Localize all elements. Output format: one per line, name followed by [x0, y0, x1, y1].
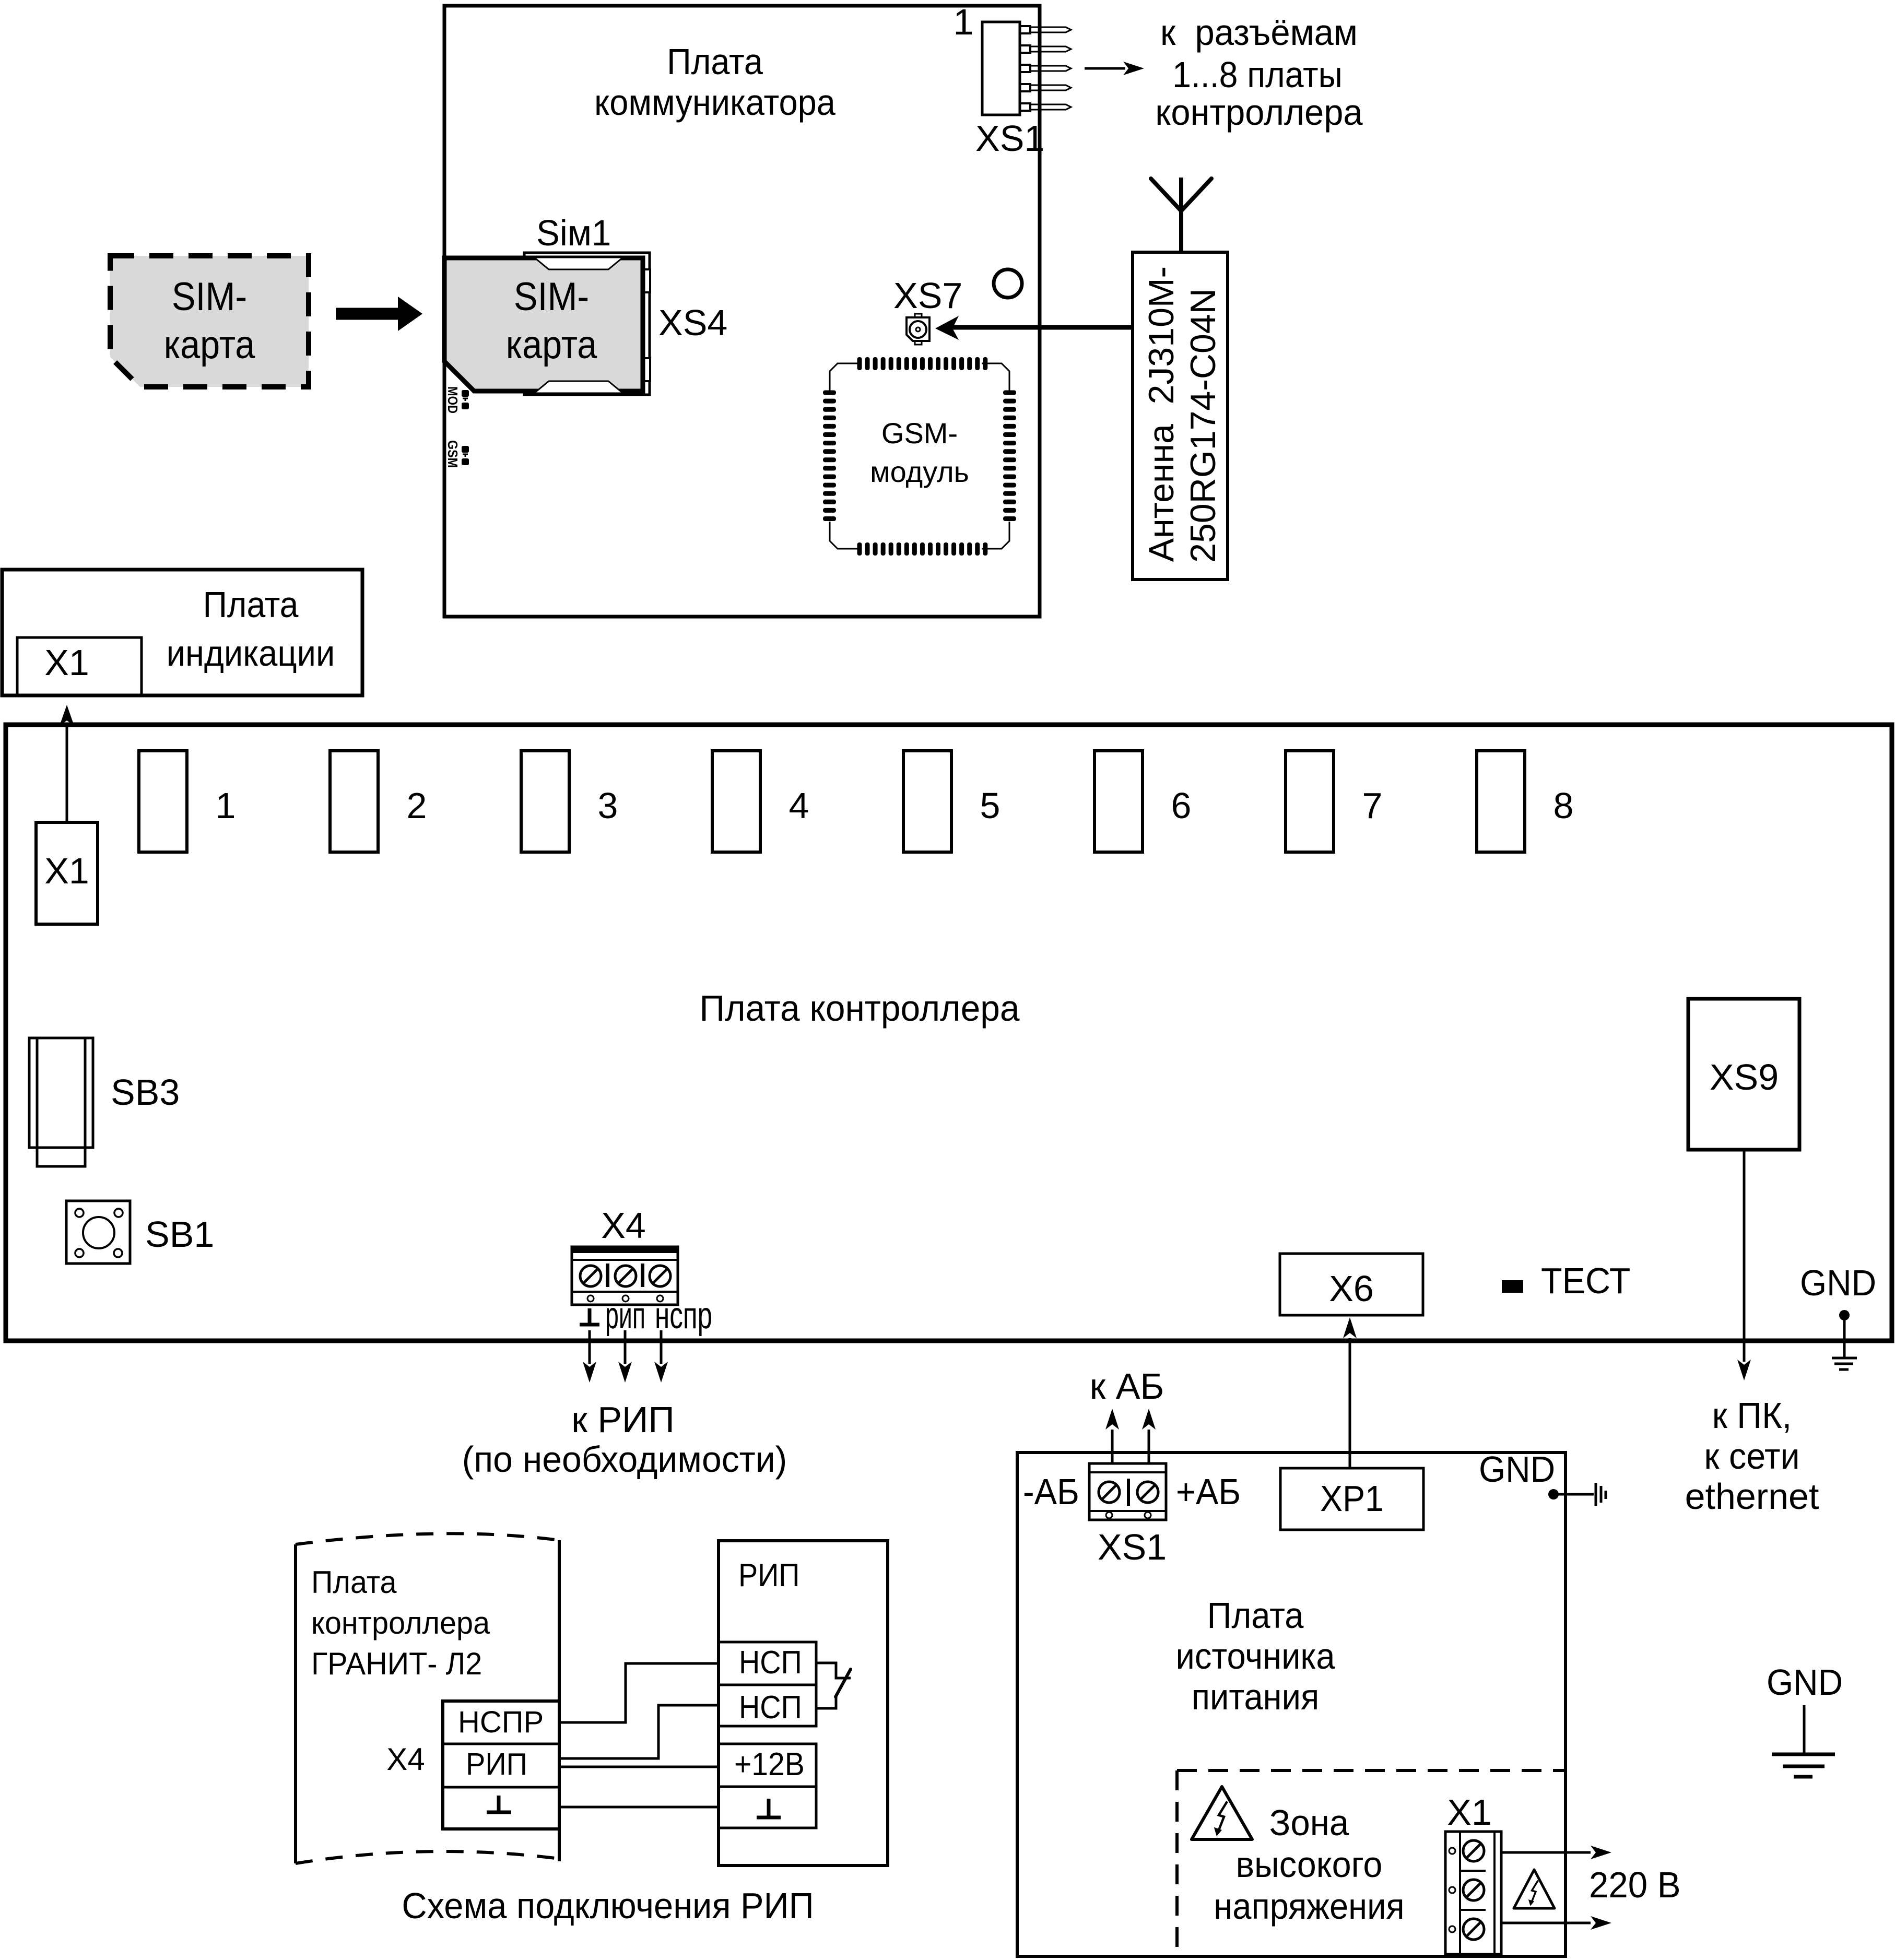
svg-text:X4: X4: [601, 1205, 646, 1246]
svg-text:+12В: +12В: [734, 1746, 805, 1782]
svg-text:НСПР: НСПР: [458, 1705, 544, 1739]
svg-text:GND: GND: [1800, 1263, 1876, 1303]
svg-text:питания: питания: [1192, 1677, 1319, 1718]
svg-text:Плата: Плата: [1207, 1596, 1304, 1636]
svg-text:РИП: РИП: [738, 1557, 799, 1593]
svg-text:Плата контроллера: Плата контроллера: [699, 988, 1020, 1029]
svg-text:индикации: индикации: [167, 633, 335, 674]
svg-text:Антенна 2J310M-: Антенна 2J310M-: [1141, 266, 1181, 562]
svg-text:к разъёмам: к разъёмам: [1160, 12, 1358, 53]
svg-text:Зона: Зона: [1269, 1802, 1349, 1844]
svg-text:РИП: РИП: [466, 1748, 527, 1782]
svg-text:модуль: модуль: [870, 455, 969, 488]
svg-text:НСП: НСП: [739, 1690, 802, 1725]
svg-text:6: 6: [1171, 785, 1192, 826]
svg-text:ethernet: ethernet: [1685, 1476, 1819, 1517]
svg-text:рип: рип: [605, 1294, 645, 1337]
svg-text:к АБ: к АБ: [1090, 1366, 1164, 1407]
svg-text:Плата: Плата: [311, 1565, 397, 1600]
svg-text:8: 8: [1553, 785, 1574, 826]
svg-text:GSM-: GSM-: [881, 417, 958, 450]
svg-text:XS1: XS1: [1098, 1527, 1167, 1567]
svg-text:к РИП: к РИП: [571, 1399, 674, 1440]
svg-text:GSM: GSM: [445, 440, 461, 468]
svg-text:Плата: Плата: [203, 585, 299, 625]
svg-text:к сети: к сети: [1704, 1436, 1799, 1477]
svg-text:(по необходимости): (по необходимости): [462, 1439, 787, 1480]
svg-text:карта: карта: [506, 323, 597, 367]
svg-text:ТЕСТ: ТЕСТ: [1541, 1260, 1630, 1301]
svg-text:-АБ: -АБ: [1023, 1472, 1079, 1513]
svg-text:GND: GND: [1767, 1662, 1843, 1703]
svg-text:X1: X1: [1447, 1792, 1492, 1833]
svg-text:SIM-: SIM-: [514, 275, 589, 319]
svg-text:250RG174-C04N: 250RG174-C04N: [1183, 288, 1223, 562]
svg-text:MOD: MOD: [445, 386, 461, 414]
svg-text:X1: X1: [44, 642, 89, 683]
svg-text:ГРАНИТ- Л2: ГРАНИТ- Л2: [311, 1647, 482, 1681]
svg-text:XS9: XS9: [1710, 1057, 1779, 1097]
svg-text:SB1: SB1: [145, 1214, 214, 1255]
svg-text:7: 7: [1362, 785, 1383, 826]
svg-text:5: 5: [980, 785, 1001, 826]
svg-text:к ПК,: к ПК,: [1712, 1395, 1792, 1436]
svg-text:+АБ: +АБ: [1176, 1472, 1241, 1513]
svg-text:X4: X4: [386, 1742, 425, 1777]
svg-text:контроллера: контроллера: [1155, 92, 1363, 133]
svg-text:Sім1: Sім1: [536, 212, 611, 254]
svg-text:220 В: 220 В: [1589, 1864, 1681, 1906]
svg-text:1...8 платы: 1...8 платы: [1172, 55, 1343, 96]
svg-text:Плата: Плата: [667, 42, 763, 82]
svg-text:источника: источника: [1175, 1636, 1335, 1677]
svg-text:XP1: XP1: [1320, 1479, 1384, 1519]
svg-text:X1: X1: [44, 851, 89, 891]
svg-text:SIM-: SIM-: [172, 275, 247, 319]
svg-text:напряжения: напряжения: [1214, 1886, 1404, 1927]
svg-text:GND: GND: [1479, 1449, 1555, 1490]
svg-text:4: 4: [789, 785, 809, 826]
svg-text:1: 1: [216, 785, 236, 826]
svg-text:высокого: высокого: [1236, 1844, 1383, 1885]
svg-text:нспр: нспр: [655, 1294, 712, 1337]
svg-text:Схема подключения РИП: Схема подключения РИП: [402, 1886, 814, 1927]
svg-text:2: 2: [407, 785, 427, 826]
svg-text:1: 1: [954, 2, 974, 42]
svg-text:XS4: XS4: [658, 302, 727, 343]
svg-text:XS1: XS1: [975, 118, 1044, 159]
svg-text:SB3: SB3: [111, 1072, 180, 1113]
svg-text:3: 3: [598, 785, 618, 826]
svg-text:коммуникатора: коммуникатора: [594, 82, 835, 123]
svg-text:карта: карта: [164, 323, 255, 367]
svg-text:НСП: НСП: [739, 1645, 802, 1680]
svg-text:контроллера: контроллера: [311, 1606, 490, 1640]
svg-text:XS7: XS7: [893, 275, 962, 316]
svg-text:X6: X6: [1329, 1268, 1374, 1309]
